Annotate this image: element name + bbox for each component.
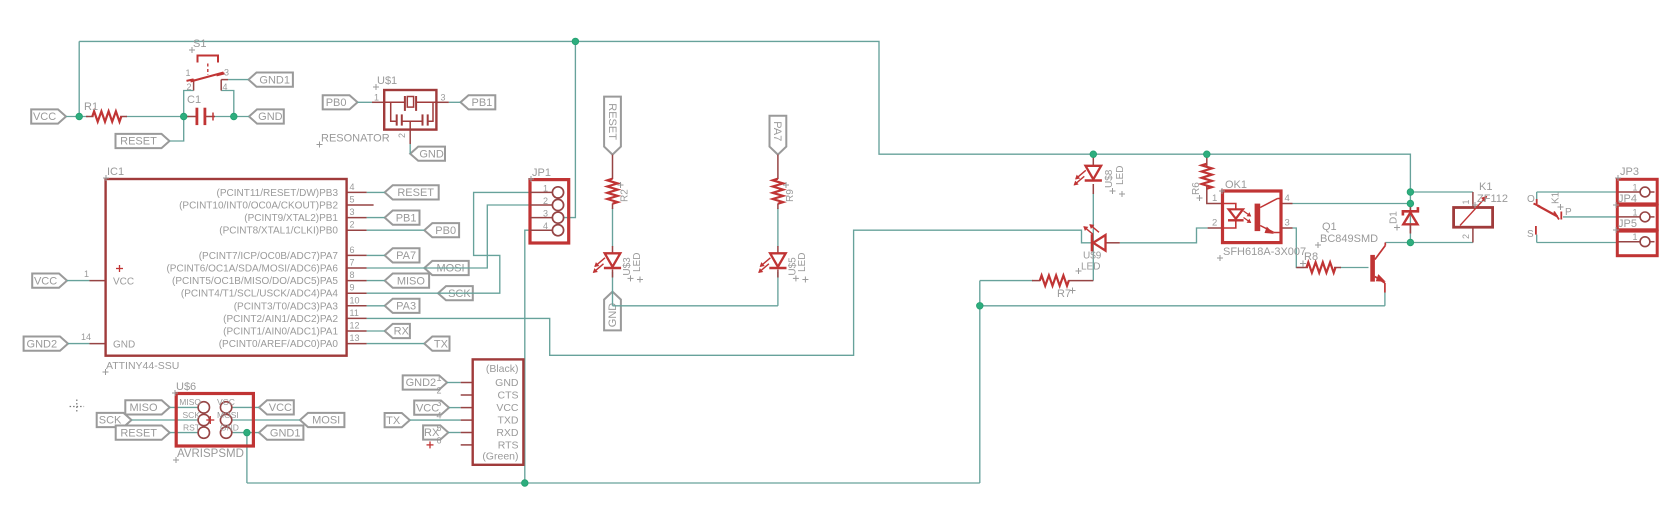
svg-text:(PCINT7/ICP/OC0B/ADC7)PA7: (PCINT7/ICP/OC0B/ADC7)PA7 (199, 251, 339, 262)
svg-text:6: 6 (350, 245, 355, 255)
svg-text:TX: TX (434, 338, 449, 350)
svg-text:ATTINY44-SSU: ATTINY44-SSU (106, 360, 179, 372)
svg-text:RESET: RESET (606, 103, 618, 140)
svg-text:MISO: MISO (179, 397, 201, 407)
svg-text:2: 2 (187, 82, 192, 92)
svg-text:LED: LED (632, 253, 643, 272)
svg-text:(PCINT11/RESET/DW)PB3: (PCINT11/RESET/DW)PB3 (217, 188, 339, 199)
svg-text:SCK: SCK (448, 288, 471, 300)
svg-text:(PCINT3/T0/ADC3)PA3: (PCINT3/T0/ADC3)PA3 (234, 301, 339, 312)
svg-text:VCC: VCC (496, 402, 519, 414)
svg-text:1: 1 (1212, 193, 1217, 204)
svg-text:RTS: RTS (498, 439, 519, 451)
svg-text:U$9: U$9 (1083, 251, 1102, 262)
svg-text:PB0: PB0 (326, 97, 347, 109)
svg-text:LED: LED (797, 253, 808, 272)
svg-text:1: 1 (1461, 199, 1471, 204)
svg-text:PA7: PA7 (396, 250, 416, 262)
svg-text:4: 4 (223, 82, 228, 92)
svg-text:JP3: JP3 (1620, 166, 1639, 178)
svg-text:11: 11 (350, 308, 359, 318)
svg-text:VCC: VCC (217, 397, 235, 407)
svg-text:(PCINT8/XTAL1/CLKI)PB0: (PCINT8/XTAL1/CLKI)PB0 (219, 226, 338, 237)
svg-text:TX: TX (386, 415, 401, 427)
svg-text:7: 7 (350, 258, 355, 268)
svg-text:4: 4 (1285, 193, 1290, 204)
svg-text:LED: LED (1081, 262, 1100, 273)
svg-text:U$8: U$8 (1104, 169, 1115, 188)
svg-text:(PCINT2/AIN1/ADC2)PA2: (PCINT2/AIN1/ADC2)PA2 (223, 314, 338, 325)
svg-text:(PCINT5/OC1B/MISO/DO/ADC5)PA5: (PCINT5/OC1B/MISO/DO/ADC5)PA5 (172, 276, 338, 287)
svg-text:S: S (1527, 229, 1534, 240)
svg-text:D1: D1 (1389, 211, 1400, 224)
svg-text:R1: R1 (84, 101, 98, 113)
svg-text:U$1: U$1 (377, 75, 397, 87)
svg-text:PA3: PA3 (396, 301, 416, 313)
svg-text:1: 1 (1632, 207, 1637, 217)
svg-text:GND: GND (258, 111, 283, 123)
svg-text:U$6: U$6 (176, 381, 196, 393)
svg-text:K1: K1 (1551, 191, 1562, 204)
svg-text:4: 4 (436, 411, 441, 421)
svg-text:1: 1 (543, 183, 548, 193)
svg-text:4: 4 (350, 182, 355, 192)
svg-text:(PCINT6/OC1A/SDA/MOSI/ADC6)PA6: (PCINT6/OC1A/SDA/MOSI/ADC6)PA6 (166, 264, 338, 275)
svg-text:LED: LED (1115, 166, 1126, 185)
svg-text:10: 10 (350, 295, 360, 305)
svg-text:3: 3 (1285, 218, 1290, 229)
svg-text:GND1: GND1 (270, 427, 301, 439)
svg-text:3: 3 (436, 398, 441, 408)
svg-text:PA7: PA7 (771, 121, 783, 141)
svg-text:MOSI: MOSI (217, 410, 239, 420)
svg-text:VCC: VCC (34, 275, 57, 287)
svg-text:ZF112: ZF112 (1477, 193, 1508, 205)
svg-text:RESET: RESET (120, 136, 157, 148)
svg-text:2: 2 (1212, 218, 1217, 229)
svg-text:R9: R9 (785, 189, 796, 202)
svg-text:AVRISPSMD: AVRISPSMD (177, 448, 244, 460)
svg-text:R7: R7 (1057, 288, 1071, 300)
svg-text:3: 3 (224, 68, 229, 78)
svg-text:MISO: MISO (397, 275, 426, 287)
svg-text:1: 1 (1632, 232, 1637, 242)
svg-text:(PCINT4/T1/SCL/USCK/ADC4)PA4: (PCINT4/T1/SCL/USCK/ADC4)PA4 (181, 289, 339, 300)
svg-text:RX: RX (394, 326, 410, 338)
svg-text:2: 2 (397, 133, 407, 138)
svg-text:2: 2 (436, 386, 441, 396)
svg-text:RESONATOR: RESONATOR (321, 133, 390, 145)
svg-text:(Black): (Black) (486, 363, 519, 375)
svg-text:R2: R2 (620, 189, 631, 202)
svg-text:MOSI: MOSI (436, 263, 464, 275)
svg-text:JP4: JP4 (1618, 193, 1637, 205)
svg-text:VCC: VCC (33, 111, 56, 123)
svg-text:VCC: VCC (113, 277, 134, 288)
svg-text:2: 2 (350, 220, 355, 230)
svg-text:GND2: GND2 (406, 377, 437, 389)
svg-text:JP5: JP5 (1618, 218, 1637, 230)
svg-text:13: 13 (350, 333, 360, 343)
svg-text:GND: GND (495, 377, 519, 389)
svg-text:14: 14 (81, 332, 91, 342)
svg-text:1: 1 (1632, 183, 1637, 193)
svg-text:1: 1 (436, 373, 441, 383)
svg-text:1: 1 (186, 68, 191, 78)
svg-text:3: 3 (543, 209, 548, 219)
svg-text:JP1: JP1 (532, 167, 551, 179)
svg-text:8: 8 (350, 270, 355, 280)
svg-text:4: 4 (543, 221, 548, 231)
svg-text:SFH618A-3X007: SFH618A-3X007 (1223, 246, 1306, 258)
svg-text:GND: GND (220, 422, 239, 432)
svg-text:PB1: PB1 (396, 212, 417, 224)
svg-text:(PCINT10/INT0/OC0A/CKOUT)PB2: (PCINT10/INT0/OC0A/CKOUT)PB2 (179, 201, 338, 212)
svg-text:6: 6 (436, 435, 441, 445)
svg-text:R6: R6 (1191, 182, 1202, 195)
svg-text:C1: C1 (187, 94, 201, 106)
svg-text:MISO: MISO (129, 402, 158, 414)
svg-text:3: 3 (350, 207, 355, 217)
svg-text:5: 5 (436, 423, 441, 433)
svg-text:GND2: GND2 (27, 338, 58, 350)
svg-text:K1: K1 (1479, 181, 1492, 193)
svg-text:9: 9 (350, 283, 355, 293)
svg-text:3: 3 (441, 93, 446, 103)
svg-text:5: 5 (350, 195, 355, 205)
svg-text:1: 1 (374, 93, 379, 103)
svg-text:S1: S1 (193, 38, 206, 50)
svg-text:2: 2 (543, 196, 548, 206)
svg-text:P: P (1565, 207, 1572, 218)
svg-text:VCC: VCC (269, 402, 292, 414)
svg-text:RESET: RESET (397, 187, 434, 199)
svg-text:TXD: TXD (498, 415, 519, 427)
svg-text:RST: RST (183, 422, 200, 432)
svg-text:O: O (1527, 194, 1535, 205)
svg-text:OK1: OK1 (1225, 179, 1247, 191)
svg-text:SCK: SCK (183, 410, 201, 420)
svg-text:GND: GND (113, 340, 135, 351)
svg-text:GND1: GND1 (259, 74, 290, 86)
svg-text:RESET: RESET (120, 427, 157, 439)
svg-text:1: 1 (84, 269, 89, 279)
svg-text:BC849SMD: BC849SMD (1320, 233, 1378, 245)
svg-text:RXD: RXD (496, 427, 519, 439)
svg-text:Q1: Q1 (1322, 221, 1337, 233)
svg-text:PB1: PB1 (472, 97, 493, 109)
svg-text:CTS: CTS (498, 390, 519, 402)
svg-text:(PCINT1/AIN0/ADC1)PA1: (PCINT1/AIN0/ADC1)PA1 (223, 327, 338, 338)
svg-text:(PCINT0/AREF/ADC0)PA0: (PCINT0/AREF/ADC0)PA0 (219, 339, 339, 350)
svg-text:GND: GND (419, 148, 444, 160)
svg-text:(PCINT9/XTAL2)PB1: (PCINT9/XTAL2)PB1 (244, 213, 338, 224)
svg-text:MOSI: MOSI (312, 415, 340, 427)
svg-text:IC1: IC1 (107, 166, 124, 178)
svg-text:(Green): (Green) (482, 451, 518, 463)
svg-text:PB0: PB0 (435, 225, 456, 237)
svg-text:12: 12 (350, 321, 360, 331)
svg-text:2: 2 (1461, 234, 1471, 239)
